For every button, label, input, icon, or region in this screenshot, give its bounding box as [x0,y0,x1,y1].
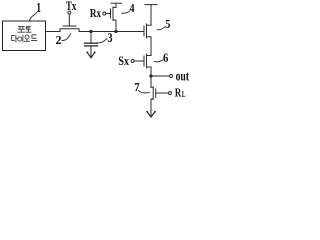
wire gate of transistor 7 to RL terminal [156,92,169,94]
label 2 [56,34,71,44]
terminal RL [169,92,172,95]
power rail VDD above transistor 4 [111,2,122,4]
label 6 [155,54,169,63]
wire transistor 2 to node FD [79,31,91,33]
label RL [175,89,185,98]
label Sx [119,57,129,66]
capacitor 3 [85,32,98,57]
wire Rx to gate of transistor 4 [106,13,111,15]
wire FD node to gate of transistor 5 [116,31,144,33]
label 5 [157,20,170,30]
terminal Tx [68,11,71,14]
label 4 [122,4,135,13]
wire photodiode to transistor 2 [46,31,61,33]
transistor 5 (source follower) [144,24,151,56]
transistor 2 (transfer gate) [60,14,79,31]
label 3 [98,33,113,43]
wire node to out terminal [151,75,169,77]
power rail VDD above transistor 5 [145,5,157,26]
label Tx [66,2,76,11]
label out [176,73,189,81]
label 7 [135,83,150,93]
terminal Sx [131,60,134,63]
photodiode box text 포토 다이오드 [12,26,38,42]
label Rx [90,9,101,17]
junction dot at transistor 4 source [114,30,117,33]
ground below capacitor 3 [86,51,95,57]
transistor 4 (reset) [111,3,117,31]
label 1 [29,3,40,21]
node FD junction dot [89,30,92,33]
transistor 7 (bias load) [151,76,156,115]
wire FD node to transistor 4 [91,31,116,33]
transistor 6 (select) [144,54,151,76]
node out junction dot [149,74,152,77]
ground below transistor 7 [146,111,155,117]
photodiode box 1 [3,21,46,51]
wire Sx to gate of transistor 6 [134,60,144,62]
terminal Rx [103,12,106,15]
terminal out [170,75,173,78]
